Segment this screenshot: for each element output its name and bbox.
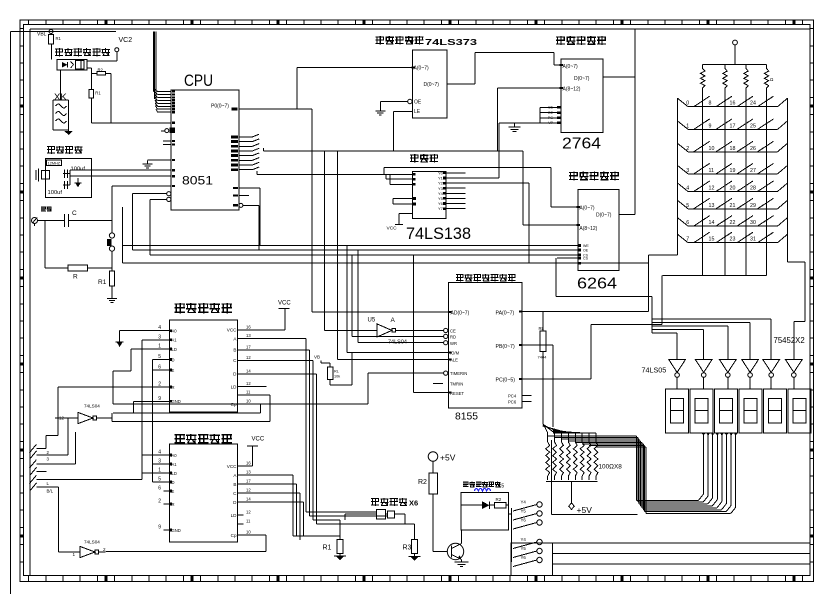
svg-text:100uf: 100uf: [48, 190, 63, 196]
kbd row 4: [678, 181, 788, 192]
decoder 74LS138 box: [413, 172, 447, 219]
svg-text:16: 16: [246, 461, 251, 466]
distributor U4 box: [170, 444, 238, 542]
8155 TIMERIN pin: [113, 371, 467, 404]
svg-text:RL: RL: [334, 370, 339, 374]
ROM 2764 box: [561, 59, 603, 133]
distributor U4 left pins: [158, 450, 181, 533]
wire U4 phase A: [244, 475, 338, 536]
kbd left rail: [677, 98, 679, 243]
svg-text:2: 2: [158, 499, 161, 505]
inverter U5 74LS04: [324, 151, 443, 345]
svg-text:10: 10: [246, 530, 251, 535]
svg-text:PB(0~7): PB(0~7): [496, 344, 515, 350]
svg-text:A0: A0: [172, 453, 178, 458]
svg-text:1: 1: [73, 552, 76, 557]
wire U3 LD: [113, 349, 164, 404]
svg-text:A1: A1: [172, 338, 178, 343]
svg-text:WR: WR: [450, 341, 457, 346]
blue coil: [474, 489, 490, 492]
svg-text:74LS04: 74LS04: [84, 404, 100, 409]
decoder enable pins: [393, 197, 416, 205]
svg-text:+5V: +5V: [577, 505, 593, 515]
ground (XK): [64, 130, 72, 135]
svg-text:11: 11: [246, 389, 251, 394]
resistor R1 (EA pullup): [89, 74, 101, 123]
+5V supply: [428, 452, 455, 473]
svg-text:3: 3: [686, 168, 689, 174]
svg-text:CE: CE: [450, 329, 456, 334]
kbd pullup resistor 4: [764, 65, 768, 276]
svg-text:VBL: VBL: [37, 32, 47, 38]
wire EA: [91, 74, 175, 124]
wire U4 Cp: [113, 535, 266, 552]
wire P0 bus: [239, 68, 412, 110]
wire driver staircase: [556, 258, 771, 359]
wire slash2: [37, 418, 79, 455]
wire left loop: [11, 32, 116, 594]
diode D1: [461, 501, 494, 509]
label P0(0~7): [211, 104, 229, 110]
wire A0 bus: [257, 171, 382, 174]
svg-text:12: 12: [246, 381, 251, 386]
svg-text:A(0~7): A(0~7): [579, 206, 594, 212]
svg-text:PC4: PC4: [508, 393, 517, 398]
svg-text:74LS05: 74LS05: [642, 365, 667, 374]
svg-text:C: C: [72, 210, 77, 217]
wire U3 LD out: [244, 386, 267, 388]
distributor U3 box: [170, 320, 238, 412]
wire latch Q out: [447, 53, 561, 84]
svg-text:30: 30: [750, 220, 756, 226]
svg-text:7: 7: [686, 237, 689, 243]
svg-text:AD(0~7): AD(0~7): [451, 310, 470, 316]
svg-text:WE: WE: [583, 244, 589, 248]
wire 2764 data: [603, 76, 635, 78]
node VBL: [37, 30, 53, 38]
inverter 74LS05 unit 3: [719, 359, 736, 389]
svg-text:X5: X5: [498, 484, 504, 490]
svg-text:17: 17: [730, 123, 736, 129]
wire A8 bus: [264, 148, 524, 151]
svg-text:Y5: Y5: [521, 546, 527, 551]
crystal circuit box: [46, 159, 92, 198]
wire 2764 high addr: [498, 88, 561, 151]
kbd right rail: [787, 98, 789, 243]
wire ctrl RD: [133, 194, 578, 250]
svg-text:6: 6: [686, 220, 689, 226]
svg-text:LD: LD: [231, 513, 238, 518]
wire slash6: [37, 486, 59, 488]
resistor R1 (motor): [323, 536, 344, 556]
connector speaker: [32, 207, 52, 224]
wire RST: [112, 186, 171, 233]
wire XTAL2: [70, 170, 171, 185]
svg-text:VCC: VCC: [227, 464, 237, 469]
svg-text:9: 9: [158, 525, 161, 531]
CPU 8051 box: [171, 90, 239, 210]
2764 D0-7 label: [574, 76, 590, 82]
svg-text:2: 2: [103, 547, 106, 552]
svg-text:R3: R3: [403, 545, 412, 552]
wire 2764 CE: [447, 123, 540, 178]
wire U3 R: [58, 387, 164, 435]
svg-text:A: A: [391, 317, 396, 324]
svg-text:23: 23: [730, 237, 736, 243]
label 程序存储器: [556, 36, 606, 45]
connector left slashes: [30, 444, 54, 493]
8155 TMROUT pin: [433, 382, 463, 387]
svg-text:VCC: VCC: [278, 300, 291, 306]
kbd pullup resistor 3: [744, 65, 748, 276]
wire U4 phase B: [244, 484, 297, 536]
svg-text:100ΩX8: 100ΩX8: [599, 464, 623, 471]
svg-text:A1: A1: [172, 462, 178, 467]
wire U3 pin11: [112, 395, 270, 421]
kbd resistor label: [770, 77, 774, 82]
gnd arrow (crystal): [75, 178, 82, 188]
svg-text:19: 19: [730, 168, 736, 174]
latch 74LS373 box: [412, 50, 446, 118]
svg-text:4: 4: [158, 450, 161, 456]
svg-text:25: 25: [750, 123, 756, 129]
svg-text:100uf: 100uf: [71, 166, 86, 172]
svg-text:VCC: VCC: [387, 226, 398, 232]
8155 WR pin: [358, 250, 457, 346]
resistor R2 (top-left): [87, 67, 111, 75]
kbd row 3: [678, 163, 788, 174]
inverter 74LS05 unit 1: [669, 359, 686, 389]
CPU Vss ground: [143, 159, 176, 168]
6264 D0-7 label: [596, 213, 612, 219]
optocoupler K1: [57, 60, 87, 71]
resistor network 100ohmX8: [522, 345, 638, 515]
label 75452X2: [774, 336, 805, 345]
svg-text:11: 11: [246, 519, 251, 524]
connector Y circles: [513, 500, 542, 567]
switch bank XK: [53, 70, 69, 130]
svg-text:VCC: VCC: [252, 436, 265, 442]
svg-text:D(0~7): D(0~7): [424, 82, 440, 88]
wire slash1: [37, 435, 58, 448]
svg-text:10k: 10k: [334, 375, 340, 379]
svg-text:PC6: PC6: [508, 400, 517, 405]
svg-text:13: 13: [246, 333, 251, 338]
label 74LS138: [406, 225, 471, 243]
svg-text:74LS04: 74LS04: [388, 340, 407, 346]
resistor RL (PB): [538, 312, 548, 360]
wire slash4: [37, 471, 47, 473]
svg-text:LD: LD: [231, 384, 238, 389]
svg-text:12: 12: [246, 488, 251, 493]
crystal Y1: [36, 169, 50, 182]
6264 A8-12 label: [577, 224, 598, 232]
display DS4: [739, 389, 762, 433]
svg-text:VB: VB: [314, 355, 320, 360]
svg-text:RESET: RESET: [450, 391, 464, 396]
svg-text:R: R: [73, 274, 78, 281]
wire U3 Cp: [113, 404, 261, 413]
svg-text:13: 13: [246, 470, 251, 475]
wire U3 phase A: [244, 339, 377, 513]
CPU RD pin bubble: [239, 203, 259, 207]
svg-text:17: 17: [246, 479, 251, 484]
svg-text:12: 12: [246, 355, 251, 360]
VCC U3: [238, 300, 292, 330]
wire U3 phase B: [244, 350, 388, 516]
CPU xtal pin marks: [172, 169, 175, 187]
wire 6264 data: [619, 29, 635, 214]
svg-text:12: 12: [246, 510, 251, 515]
label 数据存储器: [569, 172, 619, 181]
svg-text:6264: 6264: [577, 276, 617, 293]
VCC U4: [244, 436, 265, 466]
label 6264: [577, 276, 617, 293]
kbd row 6: [678, 216, 788, 227]
svg-text:RD: RD: [450, 335, 456, 340]
svg-text:5: 5: [158, 477, 161, 483]
ground (transistor): [455, 562, 469, 567]
resistor R (reset): [68, 265, 112, 281]
label +5V (network): [577, 505, 593, 515]
svg-text:10: 10: [246, 399, 251, 404]
svg-text:5: 5: [686, 203, 689, 209]
8155 PA label: [496, 310, 523, 316]
svg-text:4: 4: [686, 186, 689, 192]
wire ctrl WR: [150, 199, 578, 255]
CPU serial pins: [163, 140, 175, 146]
wire U4 phase D: [244, 502, 341, 536]
ground (latch): [375, 108, 385, 116]
isolator components: [345, 510, 415, 525]
svg-text:B/L: B/L: [47, 489, 54, 494]
svg-text:LD: LD: [172, 471, 177, 476]
wire +5V network: [546, 482, 598, 510]
label CPU: [184, 72, 213, 90]
svg-text:26: 26: [750, 146, 756, 152]
svg-text:OE: OE: [548, 111, 554, 115]
svg-text:20: 20: [730, 186, 736, 192]
svg-text:21: 21: [730, 203, 736, 209]
kbd column bus: [662, 274, 766, 276]
svg-text:9: 9: [709, 123, 712, 129]
label alarm circuit 越界报警电路: [55, 48, 110, 56]
resistor VB pullup: [314, 352, 352, 385]
svg-text:11: 11: [709, 168, 715, 174]
kbd row 7: [678, 232, 788, 243]
label 可编程接口芯片: [456, 274, 516, 282]
svg-text:Y5: Y5: [521, 509, 527, 514]
svg-text:14: 14: [246, 497, 251, 502]
svg-text:Y4: Y4: [521, 500, 527, 505]
inverter 74LS05 unit 6: [785, 359, 802, 389]
svg-text:10: 10: [709, 146, 715, 152]
decoder Y outputs: [438, 171, 578, 264]
kbd pullup resistor 2: [723, 65, 727, 276]
wire display segments: [548, 436, 736, 514]
8155 PB label: [496, 344, 523, 350]
svg-text:Y7: Y7: [438, 206, 444, 211]
wire U3 A1 chain: [142, 340, 164, 480]
svg-text:R1: R1: [95, 91, 101, 96]
svg-text:IO/M: IO/M: [450, 350, 460, 355]
svg-text:U5: U5: [368, 318, 376, 324]
CPU PSEN ALE pins: [233, 187, 260, 207]
title block: [511, 543, 810, 576]
display DS6: [788, 389, 811, 433]
RAM 6264 box: [578, 189, 619, 270]
inverter 74LS05 unit 4: [742, 359, 759, 389]
8155 AD label: [448, 310, 469, 316]
wire ctrl PSEN: [123, 188, 578, 246]
label 脉冲分配器 1: [175, 303, 232, 313]
kbd pullup node: [703, 40, 767, 65]
svg-text:A(0~7): A(0~7): [414, 66, 429, 72]
svg-text:A(0~7): A(0~7): [563, 64, 578, 70]
svg-text:2764: 2764: [562, 136, 601, 153]
latch D label: [424, 82, 440, 88]
svg-text:74LS04: 74LS04: [84, 540, 100, 545]
svg-text:LE: LE: [414, 109, 421, 115]
wire U3 phase D: [244, 374, 406, 524]
svg-text:74LS373: 74LS373: [425, 37, 477, 47]
display DS1: [666, 389, 689, 433]
svg-text:24: 24: [750, 101, 756, 107]
svg-text:VP: VP: [548, 121, 553, 125]
wire U3 D chain: [152, 360, 163, 483]
CPU P1 pin bundle: [153, 32, 175, 114]
svg-text:18: 18: [730, 146, 736, 152]
wire 6264 addr: [382, 168, 578, 208]
ground arrow R1: [334, 556, 346, 561]
svg-text:12: 12: [709, 186, 715, 192]
wire slash3: [37, 432, 76, 464]
display DS2: [690, 389, 713, 433]
svg-text:8155: 8155: [455, 411, 478, 423]
svg-text:TMRIN: TMRIN: [450, 382, 463, 387]
wire XTAL1: [70, 169, 171, 171]
inverter 74LS04 (1): [55, 404, 112, 424]
2764 A0-7 label: [560, 64, 578, 70]
label 脉冲分配器 2: [175, 434, 232, 444]
svg-text:CE: CE: [548, 106, 554, 110]
wire 6264 high addr: [523, 151, 578, 225]
svg-text:TIMERIN: TIMERIN: [450, 371, 467, 376]
kbd row 0: [678, 96, 788, 107]
PIO 8155 box: [449, 283, 522, 409]
label 2764: [562, 136, 601, 153]
svg-text:+5V: +5V: [440, 453, 456, 463]
2764 ctrl pins: [540, 106, 561, 126]
svg-text:12MHZ: 12MHZ: [48, 161, 61, 165]
svg-text:PG: PG: [548, 116, 553, 120]
label 地址锁存器74LS373: [376, 36, 478, 47]
resistor R (top): [49, 34, 62, 60]
6264 ctrl pins: [557, 244, 590, 265]
svg-text:OE: OE: [414, 100, 422, 106]
latch OE pin: [380, 99, 422, 107]
decoder select pins: [382, 173, 416, 185]
capacitor C1: [63, 166, 85, 178]
ground (U3): [116, 342, 124, 347]
svg-text:GND: GND: [172, 399, 181, 404]
8155 PC4 PC6: [508, 393, 532, 404]
svg-text:31: 31: [750, 237, 756, 243]
svg-text:R1: R1: [323, 545, 332, 552]
svg-text:1: 1: [686, 123, 689, 129]
capacitor C (reset): [38, 210, 113, 227]
wire PA bus: [522, 263, 648, 312]
pushbutton S: [107, 233, 115, 251]
svg-text:14: 14: [246, 368, 251, 373]
svg-text:PA(0~7): PA(0~7): [496, 310, 515, 316]
svg-text:R1: R1: [56, 36, 62, 41]
ground (2764): [509, 123, 521, 132]
svg-text:Cp: Cp: [231, 402, 237, 407]
CPU EA pin: [161, 128, 175, 134]
svg-text:OE: OE: [583, 248, 589, 252]
wire AD bus vertical: [312, 109, 449, 312]
svg-text:28: 28: [750, 186, 756, 192]
driver box: [461, 492, 509, 530]
8155 ALE pin: [337, 151, 458, 363]
svg-text:R2: R2: [496, 497, 502, 502]
ground arrow R3: [409, 557, 421, 562]
wire driver6 to kbd rail: [788, 243, 806, 359]
display DS5: [764, 389, 787, 433]
latch A label: [412, 66, 429, 72]
svg-text:A0: A0: [172, 328, 178, 333]
label 译码器: [410, 154, 438, 163]
svg-text:27: 27: [750, 168, 756, 174]
kbd pullup resistor 1: [701, 65, 705, 276]
node VC2: [87, 37, 132, 61]
wire reset loop: [35, 221, 69, 269]
svg-text:Y6: Y6: [521, 518, 527, 523]
svg-text:75452X2: 75452X2: [774, 336, 805, 345]
inverter 74LS04 (2): [59, 487, 114, 557]
svg-text:R1: R1: [98, 279, 107, 286]
svg-text:17: 17: [246, 344, 251, 349]
8155 RESET pin: [413, 255, 464, 396]
wire PC bus: [522, 275, 662, 379]
svg-text:Y4: Y4: [521, 537, 527, 542]
svg-text:29: 29: [750, 203, 756, 209]
wire U3 GND pin: [134, 401, 164, 413]
label 8051: [182, 174, 213, 188]
svg-text:A(8~12): A(8~12): [563, 87, 581, 93]
svg-text:B: B: [233, 482, 236, 487]
wire U3 gnd A0: [120, 331, 164, 342]
8155 RD pin: [352, 255, 456, 340]
svg-text:2: 2: [686, 146, 689, 152]
svg-text:14: 14: [709, 220, 715, 226]
svg-text:74LS138: 74LS138: [406, 225, 471, 243]
wire slash5: [37, 478, 142, 480]
6264 A0-7 label: [577, 206, 595, 212]
resistor R2 (driver): [495, 497, 509, 508]
resistor R2 (bottom): [418, 473, 437, 552]
display segment pins: [702, 433, 737, 436]
svg-text:A(8~12): A(8~12): [579, 226, 597, 232]
distributor U3 left pins: [158, 325, 181, 404]
svg-text:6: 6: [158, 486, 161, 492]
svg-text:15: 15: [709, 237, 715, 243]
display DS3: [715, 389, 738, 433]
kbd row 1: [678, 119, 788, 129]
svg-text:RL: RL: [539, 326, 545, 331]
svg-text:13: 13: [709, 203, 715, 209]
